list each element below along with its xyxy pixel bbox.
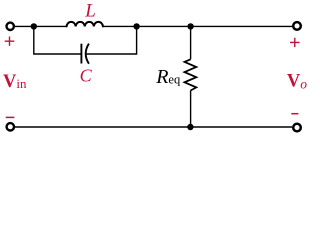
terminal: output bottom (293, 124, 301, 132)
node C (resistor tap, top wire) (187, 23, 193, 29)
terminal: input top (7, 23, 14, 30)
minus sign input (6, 116, 15, 118)
wire: resistor top lead (190, 26, 192, 59)
capacitor C (left straight plate) (80, 44, 82, 64)
node D (bottom junction) (187, 124, 193, 130)
wire bottom: input terminal to output terminal (15, 126, 292, 128)
wire: capacitor branch left drop and run to plate (34, 26, 82, 54)
wire: resistor bottom lead (190, 91, 192, 128)
wire top: input terminal to inductor (15, 25, 67, 27)
svg-text:Vin: Vin (3, 72, 27, 92)
node B (right junction of LC, top wire) (133, 23, 139, 29)
wire top: inductor to output terminal (103, 25, 292, 27)
plus sign output (290, 38, 300, 47)
terminal: input bottom (7, 123, 14, 130)
resistor R_eq (185, 59, 197, 90)
plus sign input (5, 37, 15, 46)
svg-text:Vo: Vo (287, 72, 307, 92)
svg-text:Req: Req (155, 66, 181, 88)
svg-text:C: C (80, 65, 93, 85)
minus sign output (291, 113, 298, 115)
wire: capacitor to node B riser (87, 26, 137, 54)
inductor L (67, 22, 103, 27)
node A (left junction, top wire) (31, 23, 37, 29)
capacitor C (right curved plate) (86, 44, 89, 64)
terminal: output top (293, 22, 301, 30)
svg-text:L: L (84, 0, 96, 21)
